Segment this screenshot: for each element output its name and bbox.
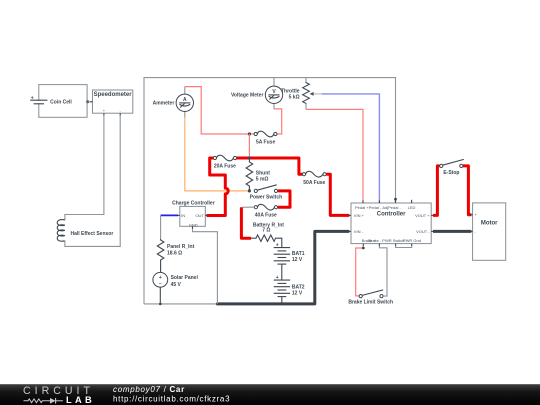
svg-text:+: + <box>159 275 162 281</box>
wire throttle bottom to Pedal+ (red) <box>306 109 363 203</box>
svg-text:45 V: 45 V <box>171 282 182 288</box>
svg-text:+: + <box>31 95 34 101</box>
wire brake- to switch (gray) <box>379 246 387 296</box>
wire ammeter to shunt node (orange) <box>185 118 248 191</box>
svg-text:PWR Gnd: PWR Gnd <box>403 238 421 243</box>
controller U1 <box>349 200 434 246</box>
wire charge controller GND (gray) <box>193 226 218 304</box>
wire battery negative bus (thick dark) <box>217 231 349 304</box>
svg-text:compboy07 / Car: compboy07 / Car <box>113 385 185 394</box>
wire solar panel riser (gray) <box>160 215 162 239</box>
svg-text:VOUT +: VOUT + <box>415 213 430 218</box>
wire top ground bus <box>144 78 396 304</box>
wire VOUT- to motor - (thick dark) <box>433 230 471 233</box>
fuse F4 40A <box>254 204 277 218</box>
node shunt bottom <box>248 189 251 192</box>
footer bar <box>0 384 540 405</box>
svg-text:7 Ω: 7 Ω <box>262 228 270 234</box>
svg-text:18.6 Ω: 18.6 Ω <box>167 251 182 257</box>
svg-text:VIN +: VIN + <box>354 213 365 218</box>
wire brake+ to brake switch (red) <box>356 246 364 296</box>
footer text <box>113 385 230 403</box>
svg-text:Hall Effect Sensor: Hall Effect Sensor <box>71 231 114 237</box>
fuse F1 5A <box>254 131 277 146</box>
svg-text:Pedal -: Pedal - <box>369 205 382 210</box>
svg-text:LED: LED <box>408 205 416 210</box>
wire <box>87 101 92 103</box>
svg-text:AdjPedal -: AdjPedal - <box>382 205 401 210</box>
wire ammeter to 5A fuse node (red) <box>185 87 254 134</box>
svg-text:Panel R_Int: Panel R_Int <box>167 244 195 250</box>
wire E-stop to motor + (thick red) <box>463 166 471 215</box>
wire VOUT+ to E-stop (thick red) <box>433 166 439 216</box>
svg-text:VIN -: VIN - <box>354 229 364 234</box>
svg-text:Throttle: Throttle <box>281 88 300 94</box>
wire power switch to 40A fuse (thick red) <box>278 191 290 207</box>
node ground bottom <box>216 302 219 305</box>
svg-text:Solar Panel: Solar Panel <box>171 275 199 281</box>
svg-text:OUT: OUT <box>195 213 204 218</box>
svg-text:5 mΩ: 5 mΩ <box>256 176 269 182</box>
svg-text:Brake Limit Switch: Brake Limit Switch <box>348 300 393 306</box>
switch SW3 E-Stop <box>440 159 464 176</box>
switch SW2 brake limit switch <box>348 290 393 306</box>
svg-text:40A Fuse: 40A Fuse <box>255 212 277 218</box>
svg-text:5A Fuse: 5A Fuse <box>256 140 275 146</box>
svg-text:50A Fuse: 50A Fuse <box>303 180 325 186</box>
node brake+ <box>362 247 365 250</box>
svg-text:Ammeter: Ammeter <box>153 101 175 107</box>
source V1 solar panel 45V <box>153 272 199 304</box>
svg-text:Controller: Controller <box>377 212 406 218</box>
node 5A fuse left <box>248 132 251 135</box>
svg-text:Coin Cell: Coin Cell <box>50 100 72 106</box>
svg-text:20A Fuse: 20A Fuse <box>214 163 236 169</box>
battery BAT1 12V <box>274 243 305 280</box>
svg-text:LAB: LAB <box>66 395 95 405</box>
node AdjPedal wire <box>394 198 397 201</box>
wire 5A node down (red) <box>248 134 250 158</box>
node coin cell / speedometer <box>86 100 89 103</box>
svg-text:http://circuitlab.com/cfkzra3: http://circuitlab.com/cfkzra3 <box>113 395 230 404</box>
voltage meter M2 <box>231 78 283 109</box>
wire hall sensor to speedometer- <box>65 115 120 246</box>
logo circuitlab <box>23 385 95 405</box>
battery BAT2 12V <box>274 275 305 304</box>
resistor R2 Panel R_Int 18.6 Ohm <box>157 239 194 272</box>
fuse F2 20A <box>213 155 236 169</box>
wire to battery R_Int (thick red) <box>241 207 251 238</box>
node solar bottom <box>159 303 162 306</box>
wire speedometer+ to hall sensor <box>65 115 104 220</box>
resistor R3 shunt 5mOhm <box>246 158 270 191</box>
svg-text:IN: IN <box>181 213 185 218</box>
wire PWR switch to PWR gnd (gray) <box>396 246 412 248</box>
ammeter M1 <box>153 87 194 118</box>
svg-text:Brake -: Brake - <box>368 238 382 243</box>
svg-text:Charge Controller: Charge Controller <box>172 200 215 206</box>
resistor R4 Battery R_Int 7 Ohm <box>251 222 284 247</box>
wire voltage meter to 5A fuse (red) <box>274 109 282 134</box>
svg-text:12 V: 12 V <box>292 290 303 296</box>
wire 50A fuse to controller VIN+ (thick red) <box>326 174 349 215</box>
switch SW1 power switch <box>250 185 283 201</box>
svg-text:−: − <box>159 282 162 288</box>
svg-text:E-Stop: E-Stop <box>443 170 459 176</box>
svg-text:Power Switch: Power Switch <box>250 194 283 200</box>
node shunt top <box>248 156 251 159</box>
speedometer U2 <box>90 90 133 116</box>
wire throttle wiper to Pedal- (blue) <box>322 94 380 203</box>
inductor L1 Hall Effect Sensor <box>57 220 113 242</box>
svg-text:Speedometer: Speedometer <box>94 92 133 98</box>
motor M3 <box>470 203 506 260</box>
fuse F3 50A <box>302 171 326 186</box>
svg-text:A: A <box>183 97 187 103</box>
wire 20A fuse to charge controller OUT (thick red) <box>207 158 229 216</box>
wire main battery bus (thick red) <box>237 158 303 174</box>
wire solar to charge controller IN (blue) <box>161 214 178 216</box>
svg-text:GND: GND <box>189 223 198 228</box>
potentiometer R1 throttle 5k <box>281 78 322 110</box>
svg-text:Motor: Motor <box>481 220 498 226</box>
charge controller U3 <box>172 200 215 228</box>
svg-text:12 V: 12 V <box>292 257 303 263</box>
svg-text:PWR Switch: PWR Switch <box>382 238 404 243</box>
svg-text:VOUT -: VOUT - <box>416 229 430 234</box>
svg-text:Pedal +: Pedal + <box>355 205 369 210</box>
svg-text:Voltage Meter: Voltage Meter <box>231 93 263 99</box>
svg-text:5 kΩ: 5 kΩ <box>289 95 300 101</box>
wire 40A fuse left (gray) <box>243 206 255 208</box>
coin cell B1 <box>30 85 87 118</box>
wire bottom thin ground <box>144 303 217 305</box>
